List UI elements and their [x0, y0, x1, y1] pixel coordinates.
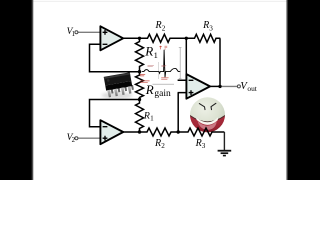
svg-text:1: 1 — [154, 50, 158, 60]
svg-text:2: 2 — [72, 137, 76, 144]
svg-text:2: 2 — [162, 24, 166, 32]
svg-text:2: 2 — [161, 142, 165, 150]
svg-text:R: R — [202, 20, 209, 31]
svg-text:R: R — [145, 82, 154, 97]
svg-text:3: 3 — [202, 142, 206, 150]
svg-text:out: out — [247, 84, 257, 93]
svg-text:R: R — [155, 20, 162, 31]
svg-text:R: R — [143, 111, 150, 122]
svg-text:R: R — [195, 138, 202, 149]
svg-text:3: 3 — [209, 24, 213, 32]
svg-text:1: 1 — [72, 31, 75, 38]
svg-text:R: R — [144, 44, 153, 59]
svg-text:1: 1 — [150, 114, 154, 122]
svg-text:R: R — [154, 138, 161, 149]
svg-text:gain: gain — [154, 89, 171, 99]
